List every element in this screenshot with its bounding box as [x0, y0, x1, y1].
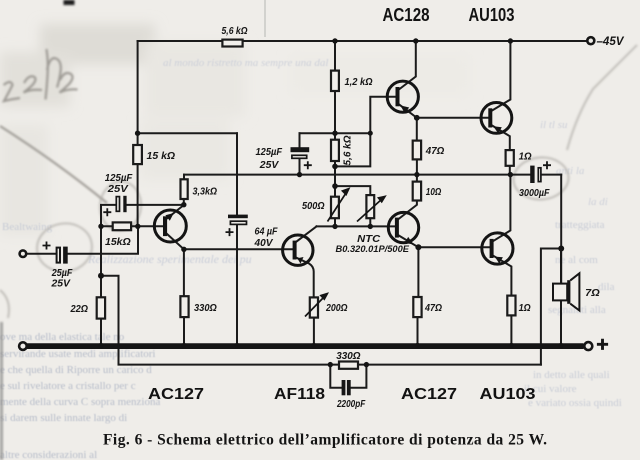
- svg-text:15 kΩ: 15 kΩ: [147, 150, 176, 162]
- svg-text:47Ω: 47Ω: [424, 302, 442, 314]
- svg-text:–45V: –45V: [597, 36, 625, 48]
- svg-text:dila: dila: [598, 281, 615, 293]
- svg-text:15kΩ: 15kΩ: [105, 236, 131, 248]
- svg-text:B0.320.01P/500E: B0.320.01P/500E: [336, 244, 411, 254]
- svg-text:330Ω: 330Ω: [194, 302, 217, 314]
- svg-text:AC128: AC128: [383, 5, 430, 25]
- svg-text:200Ω: 200Ω: [325, 302, 347, 314]
- svg-text:40V: 40V: [254, 237, 274, 249]
- svg-text:e sul rivelatore a cristallo p: e sul rivelatore a cristallo per c: [0, 380, 136, 392]
- svg-text:e variato ossia quindi: e variato ossia quindi: [528, 397, 622, 409]
- svg-text:10Ω: 10Ω: [426, 186, 442, 198]
- svg-text:5,6 kΩ: 5,6 kΩ: [222, 25, 248, 37]
- svg-text:e che quella di Riporre un car: e che quella di Riporre un carico d: [0, 364, 152, 376]
- svg-text:25V: 25V: [51, 278, 71, 290]
- svg-text:tratteggiata: tratteggiata: [555, 219, 605, 231]
- svg-text:AU103: AU103: [469, 5, 515, 25]
- svg-text:330Ω: 330Ω: [336, 350, 360, 362]
- svg-text:3,3kΩ: 3,3kΩ: [193, 186, 218, 198]
- svg-text:altre considerazioni al: altre considerazioni al: [0, 449, 97, 460]
- svg-text:la di: la di: [588, 196, 608, 208]
- svg-text:il tl su: il tl su: [540, 119, 568, 131]
- svg-text:in detto alle quali: in detto alle quali: [533, 369, 610, 381]
- svg-text:125µF: 125µF: [256, 146, 283, 158]
- svg-text:mente della curva C sopra menz: mente della curva C sopra menziona: [0, 396, 160, 408]
- svg-text:AC127: AC127: [148, 386, 204, 403]
- svg-text:22Ω: 22Ω: [70, 303, 88, 315]
- svg-text:AF118: AF118: [274, 386, 325, 403]
- svg-text:1,2 kΩ: 1,2 kΩ: [345, 76, 373, 88]
- svg-text:segnalati alla: segnalati alla: [548, 304, 606, 316]
- svg-text:2200pF: 2200pF: [336, 398, 365, 410]
- svg-text:25V: 25V: [107, 183, 129, 195]
- svg-text:si darem sulle innate largo di: si darem sulle innate largo di: [0, 412, 127, 424]
- svg-text:47Ω: 47Ω: [425, 145, 444, 157]
- svg-text:3000µF: 3000µF: [519, 187, 550, 199]
- svg-text:ove ma della elastica tale no: ove ma della elastica tale no: [0, 331, 125, 343]
- svg-text:25V: 25V: [259, 159, 279, 171]
- svg-text:500Ω: 500Ω: [302, 200, 325, 212]
- svg-text:5,6 kΩ: 5,6 kΩ: [343, 135, 354, 165]
- svg-text:1Ω: 1Ω: [519, 151, 532, 163]
- svg-text:64 µF: 64 µF: [255, 226, 278, 238]
- svg-text:7Ω: 7Ω: [585, 287, 600, 299]
- svg-text:al mondo ristretto ma sempre u: al mondo ristretto ma sempre una dal: [163, 57, 328, 69]
- svg-text:1Ω: 1Ω: [519, 302, 531, 314]
- svg-text:Fig. 6 - Schema elettrico dell: Fig. 6 - Schema elettrico dell’amplifica…: [103, 432, 547, 449]
- svg-text:AC127: AC127: [401, 386, 457, 403]
- svg-text:AU103: AU103: [480, 386, 536, 403]
